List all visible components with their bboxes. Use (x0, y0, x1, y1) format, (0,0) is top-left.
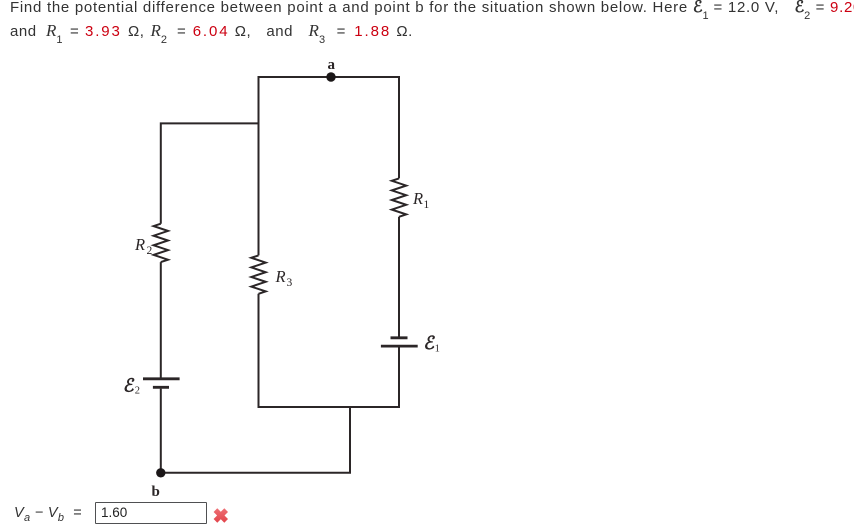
battery E2 long bar (top) (143, 377, 180, 380)
node b (156, 468, 165, 477)
battery E1 short bar (top) (391, 336, 408, 339)
wire: right vertical between R1 and battery E1 (398, 217, 400, 337)
wrong-answer X mark (208, 504, 232, 528)
svg-text:b: b (152, 484, 160, 500)
svg-text:2: 2 (135, 386, 140, 397)
node a (326, 72, 335, 81)
svg-text:1: 1 (424, 199, 430, 211)
resistor R2 (154, 224, 168, 262)
problem statement line 1 (10, 0, 854, 24)
svg-text:1: 1 (435, 344, 440, 355)
svg-text:R: R (275, 267, 286, 286)
wire: bottom path (below battery E2, bottom horizontal from b, connector up to inner loop) (161, 389, 350, 473)
svg-text:a: a (328, 57, 336, 73)
resistor R1 (392, 178, 406, 216)
svg-text:3: 3 (287, 277, 293, 289)
resistor R3 (251, 255, 265, 293)
problem statement line 2 (0, 20, 413, 48)
svg-text:2: 2 (147, 245, 153, 257)
answer row: Va - Vb = (14, 505, 82, 524)
wire: outer-left vertical between R2 and battery E2 (160, 262, 162, 377)
svg-text:R: R (134, 235, 145, 254)
answer input box (95, 502, 207, 524)
battery E1 long bar (bottom) (381, 345, 418, 348)
svg-text:R: R (412, 189, 423, 208)
battery E2 short bar (bottom) (153, 386, 169, 389)
wire: outer branch top path (middle horizontal and left vertical to R2) (161, 123, 259, 223)
wire: inner-loop top path (left vertical above R3, top wire, right vertical to R1) (259, 77, 400, 255)
wire: inner-loop bottom path (below battery E1, bottom wire, left vertical below R3) (259, 294, 400, 407)
